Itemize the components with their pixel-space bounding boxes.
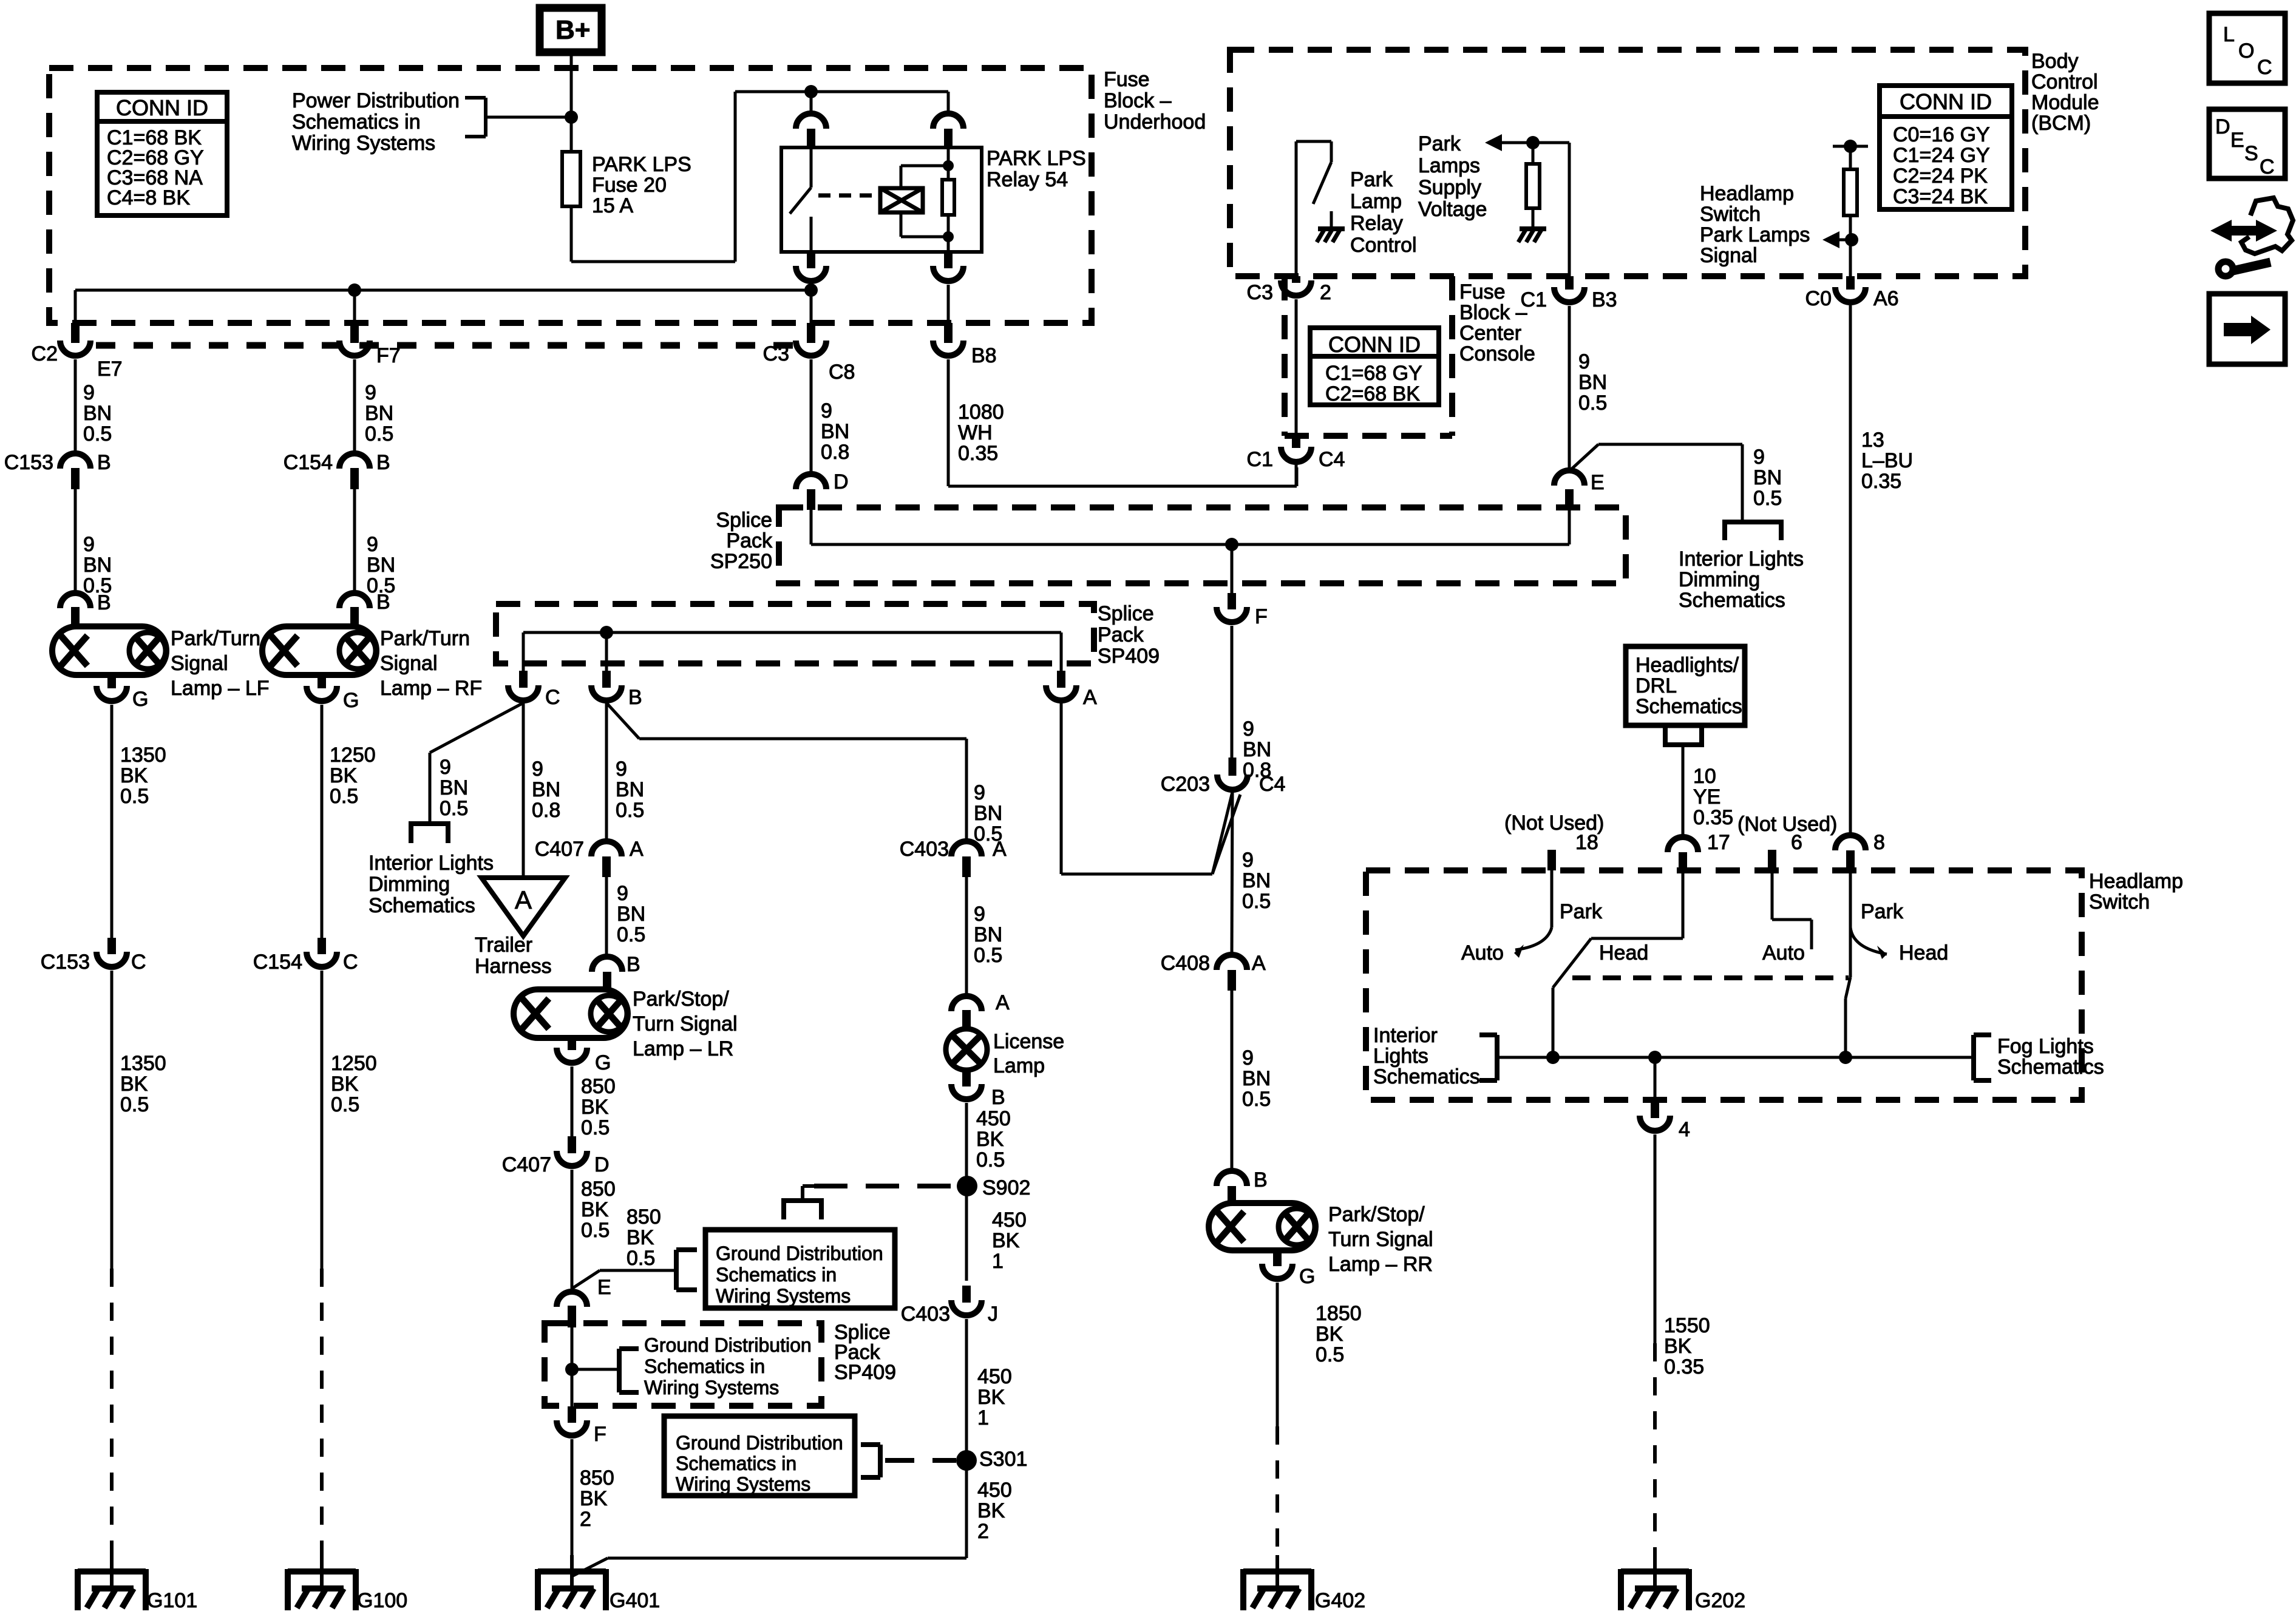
svg-text:Dimming: Dimming: [369, 873, 450, 896]
svg-text:C203: C203: [1161, 773, 1210, 796]
svg-text:BK: BK: [1664, 1335, 1692, 1358]
svg-text:BN: BN: [617, 903, 645, 926]
svg-text:BN: BN: [1243, 738, 1271, 761]
svg-text:B+: B+: [555, 15, 590, 45]
svg-text:Lamp – LR: Lamp – LR: [633, 1037, 733, 1060]
svg-text:Schematics: Schematics: [1635, 695, 1742, 718]
svg-text:Ground Distribution: Ground Distribution: [716, 1242, 883, 1264]
svg-text:850: 850: [581, 1178, 616, 1201]
svg-text:Fuse: Fuse: [1104, 68, 1150, 91]
svg-text:Block –: Block –: [1459, 301, 1527, 324]
svg-text:1: 1: [992, 1250, 1004, 1273]
svg-text:Turn Signal: Turn Signal: [633, 1012, 738, 1036]
svg-text:J: J: [988, 1303, 998, 1326]
svg-text:Lamp: Lamp: [1350, 190, 1402, 213]
svg-text:S902: S902: [982, 1176, 1030, 1199]
svg-text:F7: F7: [376, 344, 401, 367]
svg-text:BN: BN: [821, 420, 849, 443]
svg-text:BK: BK: [580, 1487, 608, 1510]
svg-text:C3: C3: [1247, 281, 1273, 304]
svg-text:B: B: [627, 953, 640, 976]
svg-text:C0=16 GY: C0=16 GY: [1893, 123, 1990, 146]
svg-text:BN: BN: [83, 554, 112, 577]
svg-text:0.35: 0.35: [1693, 806, 1733, 829]
svg-text:17: 17: [1707, 831, 1730, 854]
svg-text:A: A: [515, 886, 532, 914]
svg-text:C154: C154: [253, 951, 302, 974]
svg-text:Turn Signal: Turn Signal: [1328, 1228, 1433, 1251]
svg-text:1250: 1250: [330, 744, 376, 767]
svg-text:450: 450: [977, 1365, 1012, 1388]
svg-text:C: C: [2257, 56, 2272, 79]
svg-text:0.5: 0.5: [330, 785, 358, 808]
svg-text:Switch: Switch: [1700, 203, 1761, 226]
svg-text:PARK LPS: PARK LPS: [592, 153, 691, 176]
svg-text:BK: BK: [992, 1229, 1020, 1252]
svg-text:0.35: 0.35: [1861, 470, 1901, 493]
svg-text:B: B: [97, 591, 111, 614]
svg-text:G: G: [595, 1051, 611, 1074]
svg-text:Wiring Systems: Wiring Systems: [644, 1377, 779, 1398]
svg-text:(BCM): (BCM): [2031, 112, 2091, 135]
svg-text:BK: BK: [120, 764, 148, 787]
svg-text:0.5: 0.5: [627, 1247, 655, 1270]
svg-text:C2=24 PK: C2=24 PK: [1893, 164, 1988, 188]
svg-text:Park: Park: [1418, 132, 1461, 155]
svg-text:C4: C4: [1259, 773, 1285, 796]
svg-text:C2: C2: [32, 342, 58, 365]
svg-text:Fog Lights: Fog Lights: [1997, 1035, 2094, 1058]
svg-text:Signal: Signal: [380, 652, 438, 675]
svg-text:0.35: 0.35: [1664, 1355, 1704, 1378]
svg-text:0.5: 0.5: [617, 923, 645, 946]
svg-text:9: 9: [532, 758, 543, 781]
svg-text:Lamp – RF: Lamp – RF: [380, 677, 482, 700]
svg-text:WH: WH: [958, 421, 993, 444]
svg-text:Park/Stop/: Park/Stop/: [1328, 1203, 1425, 1226]
svg-text:BK: BK: [120, 1073, 148, 1096]
svg-text:Schematics in: Schematics in: [716, 1264, 837, 1286]
svg-text:BK: BK: [977, 1386, 1005, 1409]
svg-text:Schematics: Schematics: [1679, 589, 1785, 612]
svg-text:B: B: [991, 1086, 1005, 1109]
svg-text:B8: B8: [971, 344, 997, 367]
svg-text:0.5: 0.5: [1578, 392, 1607, 415]
svg-text:SP250: SP250: [710, 550, 772, 573]
svg-text:Module: Module: [2031, 91, 2099, 114]
svg-text:BN: BN: [1753, 466, 1782, 489]
svg-text:9: 9: [83, 533, 95, 556]
svg-text:Ground Distribution: Ground Distribution: [644, 1334, 812, 1356]
svg-text:G: G: [1299, 1265, 1315, 1288]
svg-text:Schematics: Schematics: [369, 894, 475, 917]
svg-text:0.5: 0.5: [365, 422, 393, 446]
svg-text:15 A: 15 A: [592, 194, 633, 217]
svg-text:BK: BK: [977, 1499, 1005, 1522]
svg-text:Console: Console: [1459, 342, 1535, 365]
svg-text:Wiring Systems: Wiring Systems: [716, 1285, 851, 1307]
svg-text:BN: BN: [1578, 371, 1607, 394]
svg-text:B: B: [376, 451, 390, 474]
svg-text:Schematics in: Schematics in: [676, 1453, 796, 1474]
svg-text:Fuse: Fuse: [1459, 280, 1506, 303]
svg-text:C153: C153: [41, 951, 90, 974]
svg-text:G: G: [132, 688, 148, 711]
svg-text:0.8: 0.8: [821, 441, 849, 464]
svg-text:2: 2: [977, 1520, 989, 1543]
svg-text:Lamp: Lamp: [993, 1054, 1045, 1077]
svg-text:Schematics: Schematics: [1373, 1065, 1480, 1088]
svg-text:Pack: Pack: [726, 529, 773, 552]
svg-text:450: 450: [992, 1209, 1027, 1232]
svg-text:BK: BK: [1316, 1323, 1343, 1346]
svg-text:0.5: 0.5: [83, 422, 112, 446]
svg-text:Park: Park: [1861, 900, 1904, 923]
svg-text:A: A: [1252, 952, 1266, 975]
svg-text:0.5: 0.5: [976, 1148, 1005, 1171]
svg-text:G: G: [343, 689, 359, 712]
svg-text:G401: G401: [610, 1589, 660, 1612]
svg-text:Control: Control: [1350, 234, 1417, 257]
svg-text:BK: BK: [581, 1096, 609, 1119]
svg-text:SP409: SP409: [834, 1361, 896, 1384]
svg-text:Park: Park: [1560, 900, 1603, 923]
svg-text:BN: BN: [83, 402, 112, 425]
svg-text:8: 8: [1873, 831, 1885, 854]
svg-text:C: C: [2260, 155, 2275, 178]
svg-text:BK: BK: [627, 1226, 654, 1249]
svg-text:C1=24 GY: C1=24 GY: [1893, 144, 1990, 167]
svg-text:9: 9: [617, 882, 628, 905]
svg-text:0.5: 0.5: [1753, 487, 1782, 510]
svg-text:Voltage: Voltage: [1418, 198, 1487, 221]
svg-text:0.5: 0.5: [440, 797, 468, 820]
svg-text:1350: 1350: [120, 1052, 166, 1075]
svg-text:Pack: Pack: [1098, 623, 1144, 646]
svg-text:0.5: 0.5: [1242, 890, 1271, 913]
svg-text:Control: Control: [2031, 70, 2098, 93]
svg-text:C: C: [545, 686, 560, 709]
svg-text:0.5: 0.5: [120, 1093, 149, 1116]
svg-text:C407: C407: [502, 1153, 551, 1176]
svg-text:CONN ID: CONN ID: [1328, 332, 1421, 357]
svg-text:Underhood: Underhood: [1104, 110, 1206, 134]
svg-text:BK: BK: [976, 1128, 1004, 1151]
svg-text:1850: 1850: [1316, 1302, 1362, 1325]
svg-text:C: C: [343, 951, 358, 974]
svg-text:4: 4: [1679, 1118, 1690, 1141]
svg-text:0.5: 0.5: [581, 1116, 610, 1139]
svg-text:850: 850: [627, 1205, 661, 1229]
svg-text:BN: BN: [440, 776, 468, 799]
svg-text:G100: G100: [357, 1589, 407, 1612]
svg-text:0.5: 0.5: [974, 822, 1002, 846]
svg-text:C4=8 BK: C4=8 BK: [107, 186, 190, 209]
svg-text:A: A: [630, 838, 644, 861]
svg-text:C153: C153: [4, 451, 53, 474]
svg-text:C1=68 GY: C1=68 GY: [1325, 362, 1422, 385]
svg-text:BN: BN: [1242, 1067, 1271, 1090]
svg-text:9: 9: [974, 781, 985, 804]
svg-text:9: 9: [367, 533, 378, 556]
svg-text:Signal: Signal: [1700, 244, 1758, 267]
svg-text:9: 9: [821, 399, 832, 422]
svg-text:S301: S301: [979, 1448, 1027, 1471]
svg-text:CONN ID: CONN ID: [1900, 89, 1992, 114]
svg-text:Interior Lights: Interior Lights: [1679, 547, 1804, 571]
svg-text:C3: C3: [763, 342, 789, 365]
svg-text:Head: Head: [1599, 941, 1648, 964]
svg-text:18: 18: [1575, 831, 1598, 854]
svg-text:A: A: [996, 991, 1010, 1014]
svg-text:B: B: [1254, 1168, 1268, 1192]
svg-text:C4: C4: [1319, 448, 1345, 471]
svg-text:850: 850: [580, 1466, 614, 1490]
svg-text:6: 6: [1791, 831, 1802, 854]
svg-text:B: B: [376, 591, 390, 614]
svg-text:C: C: [131, 951, 146, 974]
svg-text:BN: BN: [616, 778, 644, 801]
svg-text:1350: 1350: [120, 744, 166, 767]
svg-text:C0: C0: [1805, 287, 1832, 310]
svg-text:Center: Center: [1459, 322, 1521, 345]
svg-text:L: L: [2223, 23, 2235, 46]
svg-text:Body: Body: [2031, 50, 2079, 73]
svg-text:9: 9: [365, 381, 376, 404]
svg-text:BK: BK: [330, 764, 358, 787]
svg-text:Wiring Systems: Wiring Systems: [676, 1473, 810, 1495]
svg-text:O: O: [2238, 39, 2254, 63]
svg-text:E7: E7: [97, 358, 123, 381]
svg-text:Interior: Interior: [1373, 1024, 1438, 1047]
svg-text:BN: BN: [365, 402, 393, 425]
svg-text:A6: A6: [1873, 287, 1899, 310]
svg-text:Lamp – RR: Lamp – RR: [1328, 1253, 1433, 1276]
svg-text:9: 9: [83, 381, 95, 404]
svg-text:E: E: [597, 1276, 611, 1299]
svg-text:BN: BN: [974, 802, 1002, 825]
svg-text:Lamp – LF: Lamp – LF: [171, 677, 270, 700]
svg-text:C408: C408: [1161, 952, 1210, 975]
svg-text:Auto: Auto: [1461, 941, 1504, 964]
svg-text:0.5: 0.5: [120, 785, 149, 808]
svg-text:Schematics in: Schematics in: [644, 1355, 765, 1377]
svg-text:0.5: 0.5: [1316, 1343, 1344, 1366]
svg-text:E: E: [2230, 129, 2244, 152]
svg-text:D: D: [834, 470, 849, 493]
svg-text:G101: G101: [147, 1589, 197, 1612]
svg-text:0.5: 0.5: [974, 944, 1002, 967]
svg-text:Signal: Signal: [171, 652, 228, 675]
svg-text:Wiring Systems: Wiring Systems: [292, 132, 435, 155]
svg-text:Park Lamps: Park Lamps: [1700, 223, 1810, 246]
svg-text:C3=24 BK: C3=24 BK: [1893, 185, 1988, 208]
svg-text:BK: BK: [331, 1073, 359, 1096]
svg-text:Lights: Lights: [1373, 1045, 1428, 1068]
svg-text:Splice: Splice: [716, 509, 772, 532]
svg-text:9: 9: [1243, 717, 1254, 741]
svg-text:D: D: [2215, 115, 2230, 138]
svg-text:Trailer: Trailer: [475, 934, 532, 957]
svg-text:C407: C407: [535, 838, 584, 861]
svg-text:9: 9: [1242, 849, 1254, 872]
svg-text:13: 13: [1861, 429, 1884, 452]
svg-text:9: 9: [1578, 350, 1590, 373]
svg-text:(Not Used): (Not Used): [1737, 813, 1837, 836]
svg-text:2: 2: [1320, 281, 1331, 304]
svg-text:850: 850: [581, 1075, 616, 1098]
svg-text:Switch: Switch: [2089, 890, 2150, 914]
svg-text:Interior Lights: Interior Lights: [369, 852, 494, 875]
svg-text:E: E: [1591, 471, 1605, 494]
svg-text:G202: G202: [1695, 1589, 1745, 1612]
svg-text:BN: BN: [974, 923, 1002, 946]
svg-text:1: 1: [977, 1406, 989, 1429]
svg-text:BN: BN: [367, 554, 395, 577]
svg-text:Headlamp: Headlamp: [1700, 182, 1794, 205]
svg-text:BK: BK: [581, 1198, 609, 1221]
svg-text:0.5: 0.5: [616, 799, 644, 822]
svg-text:BN: BN: [532, 778, 560, 801]
svg-text:9: 9: [1753, 446, 1765, 469]
svg-text:YE: YE: [1693, 785, 1720, 808]
svg-text:Headlights/: Headlights/: [1635, 654, 1739, 677]
svg-text:C8: C8: [829, 361, 855, 384]
svg-text:License: License: [993, 1030, 1064, 1053]
svg-text:F: F: [1255, 605, 1268, 628]
svg-text:Harness: Harness: [475, 955, 552, 978]
svg-text:Dimming: Dimming: [1679, 568, 1760, 591]
svg-text:Splice: Splice: [1098, 602, 1154, 625]
svg-text:Lamps: Lamps: [1418, 154, 1480, 177]
svg-text:S: S: [2244, 142, 2258, 165]
svg-text:Power Distribution: Power Distribution: [292, 89, 460, 112]
svg-text:Schematics: Schematics: [1997, 1056, 2104, 1079]
svg-text:SP409: SP409: [1098, 645, 1160, 668]
svg-text:Park/Turn: Park/Turn: [380, 627, 470, 650]
svg-text:Relay: Relay: [1350, 212, 1403, 235]
svg-text:L–BU: L–BU: [1861, 449, 1913, 472]
svg-text:1550: 1550: [1664, 1314, 1710, 1337]
svg-text:CONN ID: CONN ID: [116, 95, 208, 120]
svg-text:1250: 1250: [331, 1052, 377, 1075]
svg-text:9: 9: [1242, 1046, 1254, 1070]
svg-text:B: B: [628, 686, 642, 709]
svg-text:Relay 54: Relay 54: [987, 168, 1068, 191]
svg-text:9: 9: [974, 903, 985, 926]
svg-text:C154: C154: [284, 451, 333, 474]
svg-text:Supply: Supply: [1418, 176, 1481, 199]
svg-text:B3: B3: [1592, 288, 1617, 311]
svg-text:0.5: 0.5: [331, 1093, 359, 1116]
svg-text:0.8: 0.8: [532, 799, 560, 822]
svg-text:DRL: DRL: [1635, 674, 1677, 697]
svg-text:10: 10: [1693, 765, 1716, 788]
svg-text:2: 2: [580, 1508, 591, 1531]
svg-text:450: 450: [977, 1479, 1012, 1502]
svg-text:Auto: Auto: [1762, 941, 1805, 964]
svg-text:450: 450: [976, 1107, 1011, 1130]
svg-text:0.35: 0.35: [958, 442, 998, 465]
svg-text:F: F: [594, 1423, 606, 1446]
svg-text:Park/Stop/: Park/Stop/: [633, 988, 729, 1011]
svg-text:D: D: [594, 1153, 610, 1176]
svg-text:BN: BN: [1242, 869, 1271, 892]
svg-text:A: A: [1083, 686, 1097, 709]
svg-text:0.5: 0.5: [581, 1219, 610, 1242]
svg-text:1080: 1080: [958, 401, 1004, 424]
svg-text:PARK LPS: PARK LPS: [987, 147, 1086, 170]
svg-text:C1: C1: [1247, 448, 1273, 471]
svg-text:Ground Distribution: Ground Distribution: [676, 1432, 843, 1454]
svg-text:Block –: Block –: [1104, 89, 1172, 112]
svg-text:C403: C403: [900, 838, 949, 861]
svg-text:C403: C403: [901, 1303, 950, 1326]
svg-text:Fuse 20: Fuse 20: [592, 174, 667, 197]
svg-text:Park: Park: [1350, 168, 1393, 191]
svg-text:C2=68 BK: C2=68 BK: [1325, 382, 1420, 405]
svg-text:Schematics in: Schematics in: [292, 110, 421, 134]
svg-text:9: 9: [440, 756, 451, 779]
svg-text:Headlamp: Headlamp: [2089, 870, 2183, 893]
svg-text:Head: Head: [1899, 941, 1948, 964]
svg-text:0.5: 0.5: [1242, 1088, 1271, 1111]
svg-text:9: 9: [616, 758, 627, 781]
svg-text:B: B: [97, 451, 111, 474]
svg-text:Park/Turn: Park/Turn: [171, 627, 260, 650]
svg-text:G402: G402: [1315, 1589, 1365, 1612]
